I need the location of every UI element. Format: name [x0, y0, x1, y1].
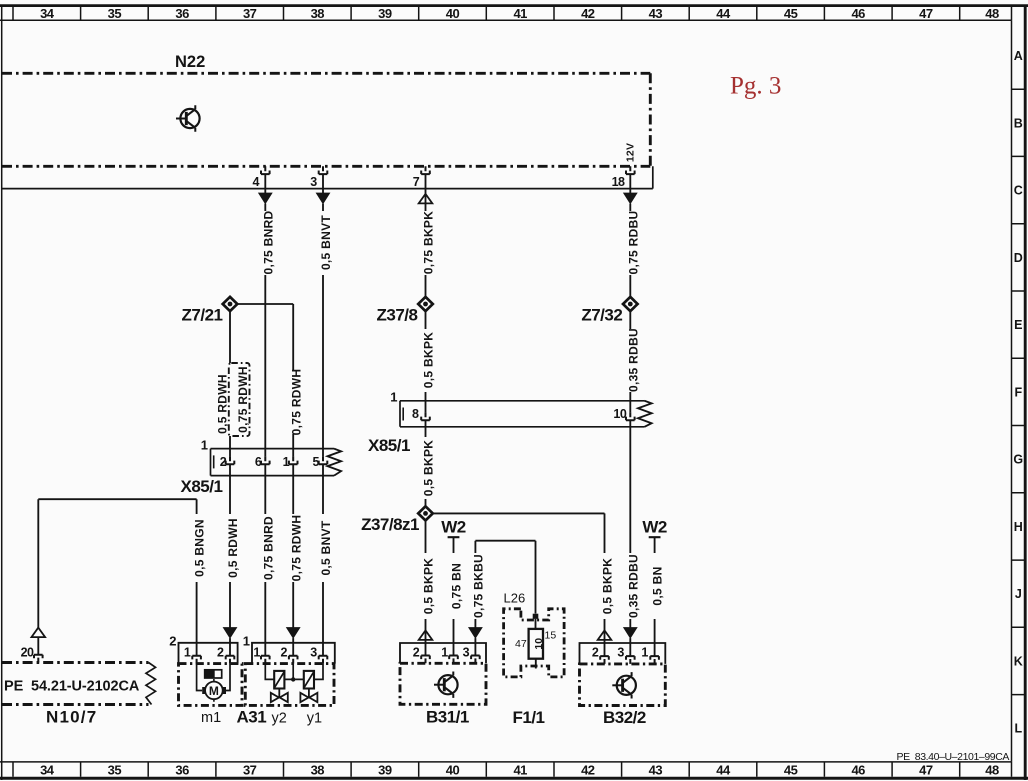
label L26: [504, 591, 526, 606]
svg-text:4: 4: [253, 175, 260, 189]
wire from X85/1 pin 2 down: [229, 464, 231, 514]
svg-text:2: 2: [169, 633, 176, 648]
fuse feed junction: [533, 614, 539, 619]
svg-text:1: 1: [641, 645, 648, 659]
svg-text:0,75 RDWH: 0,75 RDWH: [236, 366, 250, 433]
svg-text:42: 42: [581, 6, 595, 21]
svg-text:0,5 BKPK: 0,5 BKPK: [422, 332, 436, 388]
svg-text:y1: y1: [307, 710, 322, 726]
wire label 0,5 BNGN: [193, 519, 207, 577]
svg-text:Z7/21: Z7/21: [182, 306, 223, 325]
top ruler column number 36: [175, 6, 189, 21]
svg-text:38: 38: [311, 763, 325, 778]
svg-text:0,5 BKPK: 0,5 BKPK: [422, 558, 436, 614]
svg-text:0,75 BKBU: 0,75 BKBU: [472, 554, 486, 618]
direction arrow (up) at B32/2 pin 2: [598, 630, 612, 640]
right ruler row letter A: [1014, 49, 1023, 63]
X85/1 pin 5 socket: [319, 456, 328, 464]
control unit N22 dash-dot enclosure: [2, 73, 650, 166]
svg-text:Z7/32: Z7/32: [581, 306, 622, 325]
svg-text:B: B: [1014, 116, 1023, 130]
B32/2 pin 2 socket: [600, 656, 609, 664]
m1 internal indicator resistor: [205, 670, 222, 678]
right ruler row letter D: [1014, 251, 1023, 265]
svg-text:0,75 RDWH: 0,75 RDWH: [289, 515, 303, 582]
bottom ruler column number 38: [311, 763, 325, 778]
wire into B31/1 pin 2: [425, 619, 427, 656]
wire to A31 pin 3: [322, 582, 324, 656]
bottom ruler column number 35: [108, 763, 122, 778]
direction arrow on RDBU wire: [624, 193, 637, 204]
pin number 5: [313, 455, 320, 469]
svg-text:B32/2: B32/2: [603, 708, 646, 727]
wire down to splice Z37/8z1: [425, 499, 427, 507]
svg-text:E: E: [1014, 318, 1022, 332]
wire label 0,5 BNVT: [319, 520, 333, 575]
svg-text:41: 41: [513, 6, 527, 21]
wire from N22 pin 7: [425, 174, 427, 204]
pin number 4: [253, 175, 260, 189]
valve unit A31 dash-dot enclosure: [245, 664, 334, 706]
wire label 0,75 BNRD: [261, 210, 275, 274]
wire: [229, 582, 231, 628]
pin number 7: [413, 175, 420, 189]
svg-text:39: 39: [378, 763, 392, 778]
wire: [629, 204, 631, 211]
bottom ruler column number 36: [175, 763, 189, 778]
svg-text:47: 47: [515, 638, 527, 650]
top ruler column number 48: [985, 6, 999, 21]
label X85/1: [181, 477, 223, 496]
sensor B32/2 dash-dot enclosure: [580, 664, 666, 706]
svg-text:M: M: [209, 684, 219, 698]
bottom ruler column number 37: [243, 763, 257, 778]
pin number 1: [184, 645, 191, 659]
svg-text:J: J: [1015, 587, 1022, 601]
pin number 18: [612, 175, 625, 189]
wire label 0,5 BN: [651, 566, 665, 605]
wire to m1 pin 1: [196, 582, 198, 656]
svg-text:0,75 RDBU: 0,75 RDBU: [626, 210, 640, 274]
top ruler column number 43: [649, 6, 663, 21]
svg-text:10: 10: [613, 407, 626, 421]
terminal number 47: [515, 638, 527, 650]
wire to B31/1 pin 3: [474, 638, 476, 655]
direction arrow to A31: [287, 628, 300, 639]
top ruler column number 41: [513, 6, 527, 21]
bottom ruler grid strip: [0, 762, 1012, 777]
wire from N22 pin 4: [264, 174, 266, 193]
wire from X85/1 pin 6 down: [264, 464, 266, 514]
B31/1 pin 2 socket: [421, 656, 430, 664]
ground W2 terminal bar: [649, 536, 661, 538]
svg-text:0,75 BKPK: 0,75 BKPK: [422, 211, 436, 274]
connector key mark: [213, 455, 215, 468]
svg-text:2: 2: [217, 645, 224, 659]
pin number 1: [641, 645, 648, 659]
wire label 0,5 BKPK: [601, 558, 615, 614]
svg-text:43: 43: [649, 6, 663, 21]
wire to A31 pin 1: [264, 582, 266, 656]
right ruler row letter C: [1014, 184, 1023, 198]
svg-text:3: 3: [463, 645, 470, 659]
wire to B32/2 pin 1: [654, 619, 656, 656]
svg-text:1: 1: [201, 437, 208, 452]
m1 motor symbol: [202, 679, 226, 702]
bottom ruler column number 46: [851, 763, 865, 778]
internal supply label 12V: [624, 143, 636, 162]
pin number 3: [310, 645, 317, 659]
ground W2 terminal bar: [448, 536, 460, 538]
svg-text:39: 39: [378, 6, 392, 21]
direction arrow (up) at B31/1 pin 2: [419, 630, 433, 640]
svg-text:48: 48: [985, 6, 999, 21]
wire label 0,75 BN: [450, 563, 464, 609]
svg-text:0,5 BNGN: 0,5 BNGN: [193, 519, 207, 577]
svg-text:36: 36: [175, 6, 189, 21]
svg-text:N10/7: N10/7: [46, 707, 97, 726]
svg-text:0,5 BNVT: 0,5 BNVT: [319, 215, 333, 270]
A31 pin 1 socket: [261, 656, 270, 664]
svg-text:20: 20: [21, 645, 34, 659]
right ruler row letter E: [1014, 318, 1022, 332]
pin number 1: [253, 645, 260, 659]
svg-text:2: 2: [413, 645, 420, 659]
connector index 1: [243, 633, 250, 648]
wire 0,35 RDBU from X85/1 pin 10 down: [629, 420, 631, 553]
wire label 0,5 BNVT: [319, 215, 333, 270]
ground point label W2: [441, 518, 466, 537]
sensor symbol inside B31/1: [434, 672, 458, 698]
right ruler row letter G: [1013, 453, 1023, 467]
wire 0,5 BNGN from N10/7 pin 20 to m1 pin 1: [38, 499, 196, 627]
svg-text:0,75 BN: 0,75 BN: [450, 563, 464, 609]
wire label 0,5 BKPK: [422, 440, 436, 496]
label N10/7: [46, 707, 97, 726]
direction arrow on BNRD wire: [259, 193, 272, 204]
svg-text:B31/1: B31/1: [426, 707, 469, 726]
wire into X85/1 pin 8: [425, 392, 427, 412]
wire into X85/1 pin 10: [629, 392, 631, 412]
svg-text:W2: W2: [441, 518, 466, 537]
A31 pin 2 socket: [289, 656, 298, 664]
svg-text:F1/1: F1/1: [513, 708, 545, 727]
fuse element 10: [529, 629, 543, 659]
wire from W2 down: [654, 537, 656, 553]
label B31/1: [426, 707, 469, 726]
svg-text:0,75 RDWH: 0,75 RDWH: [289, 369, 303, 436]
svg-text:46: 46: [851, 6, 865, 21]
svg-text:G: G: [1013, 453, 1023, 467]
svg-text:Pg. 3: Pg. 3: [730, 73, 781, 100]
svg-text:Z37/8z1: Z37/8z1: [361, 515, 419, 534]
direction arrow to m1: [223, 628, 236, 639]
label N22: [175, 53, 205, 71]
X85/1 pin 2 socket: [226, 456, 235, 464]
top ruler column number 44: [716, 6, 731, 21]
svg-text:0,75 BNRD: 0,75 BNRD: [261, 516, 275, 580]
svg-text:0,35 RDBU: 0,35 RDBU: [626, 554, 640, 618]
svg-text:1: 1: [243, 633, 250, 648]
top ruler grid strip: [0, 7, 1012, 20]
connector index 1: [390, 390, 397, 405]
wire label 0,75 RDWH: [289, 369, 303, 436]
actuator m1 dash-dot enclosure: [179, 664, 243, 706]
right ruler row letter L: [1014, 722, 1022, 736]
svg-text:42: 42: [581, 763, 595, 778]
svg-text:K: K: [1014, 655, 1023, 669]
pin number 2: [413, 645, 420, 659]
wire from Z7/32 down: [629, 311, 631, 329]
svg-text:37: 37: [243, 6, 257, 21]
top ruler column number 35: [108, 6, 122, 21]
pin number 3: [310, 175, 317, 189]
wire into fuse element: [535, 619, 537, 629]
right ruler row letter H: [1014, 520, 1023, 534]
bottom ruler column number 44: [716, 763, 731, 778]
svg-text:35: 35: [108, 6, 122, 21]
splice node Z7/32: [623, 297, 638, 311]
right ruler letter column: [1012, 20, 1026, 762]
svg-text:47: 47: [919, 763, 933, 778]
B32/2 pin 3 socket: [626, 656, 635, 664]
svg-text:40: 40: [446, 763, 460, 778]
right ruler row letter F: [1014, 385, 1022, 399]
svg-text:34: 34: [40, 763, 55, 778]
wire to m1 pin 2: [229, 638, 231, 656]
svg-text:0,5 RDWH: 0,5 RDWH: [226, 518, 240, 578]
wire from X85/1 pin 8 down: [425, 420, 427, 437]
B31/1 pin 3 socket: [471, 656, 480, 664]
svg-text:Z37/8: Z37/8: [377, 306, 418, 325]
wire: [322, 204, 324, 211]
label B32/2: [603, 708, 646, 727]
svg-text:34: 34: [40, 6, 55, 21]
terminal number 15: [545, 630, 557, 642]
m1 internal wiring: [197, 664, 230, 691]
X85/1 pin 1 socket: [289, 456, 298, 464]
svg-text:0,75 BNRD: 0,75 BNRD: [261, 210, 275, 274]
svg-text:1: 1: [441, 645, 448, 659]
svg-text:H: H: [1014, 520, 1023, 534]
pin number 3: [617, 645, 624, 659]
connector index 2: [169, 633, 176, 648]
label Z37/8: [377, 306, 418, 325]
connector X85/1 (right) body: [400, 401, 652, 427]
svg-text:A31: A31: [237, 707, 267, 726]
bottom ruler column number 40: [446, 763, 460, 778]
svg-text:36: 36: [175, 763, 189, 778]
svg-text:X85/1: X85/1: [368, 436, 410, 455]
A31 internal wiring: [265, 664, 323, 680]
label m1: [201, 710, 221, 726]
svg-text:0,5 RDWH: 0,5 RDWH: [216, 374, 230, 434]
wire label 0,5 BKPK: [422, 332, 436, 388]
wire from fuse element down: [535, 659, 537, 669]
wire from Z7/21 down: [229, 311, 231, 363]
bottom ruler column number 39: [378, 763, 392, 778]
branch wire Z7/21 to X85/1 pin 1: [237, 304, 294, 370]
sensor B32/2 header box: [580, 643, 666, 664]
N10/7 pin 20 socket: [34, 655, 43, 663]
N22 pin 3 socket: [319, 166, 328, 174]
svg-text:41: 41: [513, 763, 527, 778]
wire label 0,75 RDBU: [626, 210, 640, 274]
label Z7/21: [182, 306, 223, 325]
solenoid valve y2: [271, 671, 288, 702]
top ruler column number 46: [851, 6, 865, 21]
wire Z37/8z1 across to B32/2 pin 2: [432, 513, 604, 553]
svg-text:F: F: [1014, 385, 1022, 399]
svg-text:1: 1: [253, 645, 260, 659]
right ruler row letter J: [1015, 587, 1022, 601]
svg-text:0,35 RDBU: 0,35 RDBU: [626, 328, 640, 392]
wire label 0,5 BKPK: [422, 558, 436, 614]
top ruler column number 34: [40, 6, 55, 21]
wire label 0,75 BNRD: [261, 516, 275, 580]
N22 pin 4 socket: [261, 166, 270, 174]
svg-text:3: 3: [617, 645, 624, 659]
label A31: [237, 707, 267, 726]
top ruler column number 40: [446, 6, 460, 21]
pin number 20: [21, 645, 34, 659]
svg-text:0,5 BNVT: 0,5 BNVT: [319, 520, 333, 575]
wire to A31 pin 2: [292, 638, 294, 656]
top ruler column number 47: [919, 6, 933, 21]
svg-text:N22: N22: [175, 53, 205, 71]
label y1: [307, 710, 322, 726]
connector key mark: [402, 408, 404, 421]
wire 0,75 RDBU down to splice Z7/32: [629, 275, 631, 298]
wire from N22 pin 18: [629, 174, 631, 193]
direction arrow (up) on BKPK wire: [419, 194, 433, 204]
svg-text:PE 83.40–U–2101–99CA: PE 83.40–U–2101–99CA: [897, 751, 1010, 763]
pin number 2: [592, 645, 599, 659]
fuse holder F1/1 dash-dot outline: [504, 609, 564, 677]
svg-text:PE 54.21-U-2102CA: PE 54.21-U-2102CA: [4, 679, 140, 695]
label X85/1: [368, 436, 410, 455]
wire 0,75 BNRD down to X85/1 pin 6: [264, 275, 266, 456]
svg-text:18: 18: [612, 175, 625, 189]
svg-text:43: 43: [649, 763, 663, 778]
boxed wire label text 0,75 RDWH: [236, 366, 250, 433]
top ruler column number 42: [581, 6, 595, 21]
svg-text:1: 1: [184, 645, 191, 659]
svg-text:D: D: [1014, 251, 1023, 265]
page label Pg. 3: [730, 73, 781, 100]
pin number 6: [255, 455, 262, 469]
bottom ruler column number 34: [40, 763, 55, 778]
splice node Z37/8: [418, 297, 433, 311]
svg-text:y2: y2: [272, 710, 287, 726]
bottom ruler column number 42: [581, 763, 595, 778]
svg-text:0,5 BKPK: 0,5 BKPK: [422, 440, 436, 496]
svg-text:0,5 BN: 0,5 BN: [651, 566, 665, 605]
direction arrow to B31/1 pin 3: [469, 628, 482, 639]
pin number 8: [412, 407, 419, 421]
connector index 1: [201, 437, 208, 452]
direction arrow on BNVT wire: [316, 193, 329, 204]
connector X85/1 (left) body: [211, 449, 342, 476]
svg-text:44: 44: [716, 6, 731, 21]
svg-text:45: 45: [784, 6, 798, 21]
top ruler column number 38: [311, 6, 325, 21]
label Z37/8z1: [361, 515, 419, 534]
label F1/1: [513, 708, 545, 727]
svg-text:m1: m1: [201, 710, 221, 726]
svg-text:3: 3: [310, 175, 317, 189]
wire label 0,5 RDWH: [216, 374, 230, 434]
B31/1 pin 1 socket: [449, 656, 458, 664]
sensor symbol inside B32/2: [612, 672, 636, 698]
A31 pin 3 socket: [319, 656, 328, 664]
svg-text:2: 2: [280, 645, 287, 659]
solenoid valve y1: [300, 671, 317, 702]
svg-text:48: 48: [985, 763, 999, 778]
wire: [425, 204, 427, 211]
wire from X85/1 pin 1 down: [292, 464, 294, 514]
wire to B32/2 pin 3: [629, 638, 631, 656]
wire label 0,75 BKPK: [422, 211, 436, 274]
B32/2 pin 1 socket: [650, 656, 659, 664]
svg-text:W2: W2: [642, 518, 667, 537]
wire label 0,75 RDWH: [289, 515, 303, 582]
wire label 0,75 BKBU: [472, 554, 486, 618]
pin number 2: [280, 645, 287, 659]
wire: [629, 619, 631, 628]
m1 pin 1 socket: [192, 656, 201, 664]
N22 pin 18 socket: [626, 166, 635, 174]
label Z7/32: [581, 306, 622, 325]
top ruler column number 45: [784, 6, 798, 21]
svg-text:X85/1: X85/1: [181, 477, 223, 496]
wire label 0,35 RDBU: [626, 328, 640, 392]
label y2: [272, 710, 287, 726]
valve unit A31 header box: [252, 643, 335, 664]
ground point label W2: [642, 518, 667, 537]
svg-text:7: 7: [413, 175, 420, 189]
wire from N10/7 pin 20 up: [37, 637, 39, 655]
svg-text:10: 10: [533, 638, 545, 650]
bottom ruler column number 47: [919, 763, 933, 778]
svg-text:1: 1: [390, 390, 397, 405]
svg-text:15: 15: [545, 630, 557, 642]
svg-text:8: 8: [412, 407, 419, 421]
wire label 0,35 RDBU: [626, 554, 640, 618]
wire 0,5 BNVT down to X85/1 pin 5: [322, 275, 324, 456]
svg-text:C: C: [1014, 184, 1023, 198]
N22 pin 7 socket: [421, 166, 430, 174]
svg-text:47: 47: [919, 6, 933, 21]
X85/1 pin 8 socket: [421, 412, 430, 420]
pin number 2: [217, 645, 224, 659]
top ruler column number 37: [243, 6, 257, 21]
actuator m1 header box: [179, 643, 238, 664]
pin number 3: [463, 645, 470, 659]
svg-text:A: A: [1014, 49, 1023, 63]
pin number 1: [441, 645, 448, 659]
pin number 2: [220, 455, 227, 469]
N22 connector strip: [2, 166, 653, 188]
right ruler row letter B: [1014, 116, 1023, 130]
drawing number PE 83.40-U-2101-99CA: [897, 751, 1010, 763]
pin number 10: [613, 407, 626, 421]
svg-text:3: 3: [310, 645, 317, 659]
wire 0,75 BKBU from fuse F1/1 to B31/1 pin 3: [475, 541, 535, 628]
splice node Z7/21: [223, 297, 238, 311]
A31 wiring junction: [291, 677, 295, 681]
wire from X85/1 pin 5 down: [322, 464, 324, 514]
